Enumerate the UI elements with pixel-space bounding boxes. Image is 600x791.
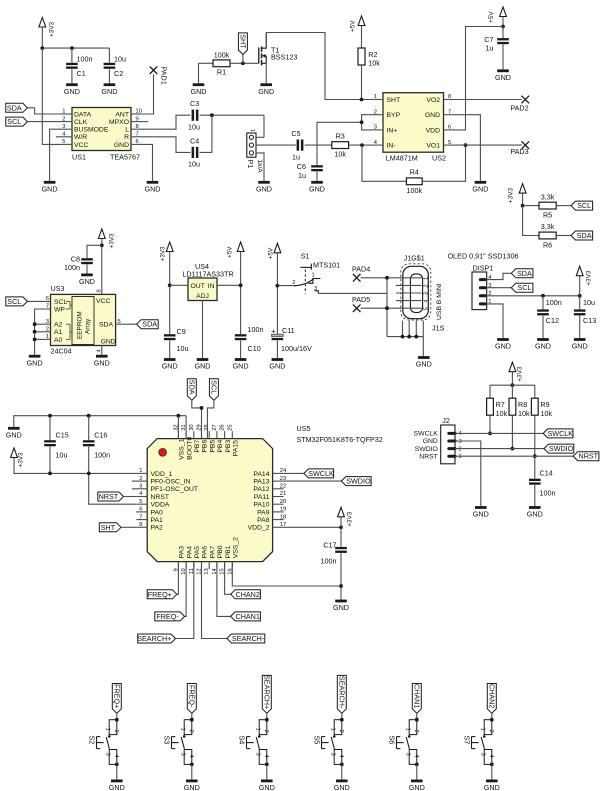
svg-text:PAD3: PAD3 (510, 147, 528, 156)
svg-text:PA0: PA0 (151, 509, 164, 516)
svg-text:3: 3 (62, 124, 65, 130)
svg-text:C4: C4 (190, 137, 199, 146)
svg-text:1: 1 (459, 454, 462, 460)
svg-text:CHAN1: CHAN1 (236, 612, 260, 621)
svg-text:5: 5 (62, 139, 65, 145)
svg-text:FREQ-: FREQ- (188, 685, 197, 708)
svg-text:100n: 100n (94, 450, 110, 459)
svg-text:J2: J2 (442, 416, 450, 425)
svg-text:IN-: IN- (387, 143, 396, 150)
svg-text:R: R (124, 134, 129, 141)
svg-text:GND: GND (473, 510, 489, 519)
svg-text:C13: C13 (583, 316, 596, 325)
svg-text:19: 19 (280, 507, 286, 513)
svg-text:FREQ+: FREQ+ (148, 590, 172, 599)
svg-text:2: 2 (113, 730, 119, 733)
svg-text:PA7: PA7 (209, 546, 216, 559)
svg-text:100n: 100n (248, 325, 264, 334)
svg-text:2: 2 (423, 284, 429, 287)
svg-text:GND: GND (416, 360, 432, 369)
svg-text:IN: IN (208, 283, 215, 290)
svg-text:10k: 10k (518, 409, 530, 418)
svg-text:A2: A2 (54, 322, 63, 329)
svg-text:+5V: +5V (488, 11, 495, 23)
svg-text:C3: C3 (190, 99, 199, 108)
svg-text:VO1: VO1 (426, 143, 440, 150)
svg-text:R5: R5 (543, 210, 552, 219)
svg-text:C12: C12 (546, 316, 559, 325)
svg-text:GND: GND (109, 783, 125, 791)
svg-text:10u: 10u (177, 344, 189, 353)
svg-text:SHT: SHT (387, 97, 401, 104)
svg-text:CHAN1: CHAN1 (413, 684, 422, 708)
svg-text:PB3: PB3 (225, 440, 232, 453)
svg-text:TEA5767: TEA5767 (110, 153, 140, 162)
svg-text:10k: 10k (496, 409, 508, 418)
svg-text:GND: GND (309, 185, 325, 194)
svg-text:PA5: PA5 (194, 546, 201, 559)
svg-text:R9: R9 (540, 400, 549, 409)
svg-text:L: L (125, 127, 129, 134)
svg-text:PF1-OSC_OUT: PF1-OSC_OUT (151, 486, 199, 493)
svg-text:BOOT0: BOOT0 (186, 437, 193, 460)
svg-text:10k: 10k (334, 150, 346, 159)
svg-text:PAD2: PAD2 (510, 103, 528, 112)
svg-text:+5V: +5V (267, 247, 274, 259)
svg-text:GND: GND (425, 112, 440, 119)
svg-text:18: 18 (280, 514, 286, 520)
svg-text:PA3: PA3 (179, 546, 186, 559)
svg-text:26: 26 (220, 424, 226, 430)
svg-text:2: 2 (188, 730, 194, 733)
svg-text:S5: S5 (312, 736, 321, 745)
svg-text:ANT: ANT (115, 111, 129, 118)
svg-text:3: 3 (479, 753, 485, 756)
svg-text:+3V3: +3V3 (347, 511, 354, 527)
svg-text:SDA: SDA (577, 231, 592, 240)
svg-text:100k: 100k (407, 186, 423, 195)
svg-text:7: 7 (448, 109, 451, 115)
svg-text:VSS_1: VSS_1 (179, 438, 186, 459)
svg-text:6: 6 (139, 507, 142, 513)
svg-text:GND: GND (256, 185, 272, 194)
svg-text:PF0-OSC_IN: PF0-OSC_IN (151, 479, 191, 486)
svg-text:DATA: DATA (74, 111, 92, 118)
svg-text:GND: GND (79, 277, 95, 286)
svg-text:3: 3 (423, 292, 429, 295)
svg-text:3: 3 (329, 753, 335, 756)
svg-text:3,3k: 3,3k (541, 192, 555, 201)
svg-text:GND: GND (535, 342, 551, 351)
svg-text:SHT: SHT (239, 34, 248, 49)
svg-text:100n: 100n (546, 298, 562, 307)
svg-text:1: 1 (249, 129, 255, 132)
svg-text:100u/16V: 100u/16V (281, 344, 312, 353)
svg-text:GND: GND (572, 342, 588, 351)
svg-text:1k/A: 1k/A (256, 160, 263, 174)
svg-text:US3: US3 (51, 284, 65, 293)
svg-text:SDA: SDA (142, 320, 157, 329)
svg-text:100n: 100n (77, 54, 93, 63)
svg-text:USB B MINI: USB B MINI (436, 283, 443, 320)
svg-text:GND: GND (472, 185, 488, 194)
svg-text:LM4871M: LM4871M (386, 154, 418, 163)
svg-text:3: 3 (459, 439, 462, 445)
svg-text:8: 8 (448, 94, 451, 100)
svg-text:PB6: PB6 (202, 440, 209, 453)
svg-text:SEARCH-: SEARCH- (232, 634, 265, 643)
svg-text:SCL: SCL (7, 117, 21, 126)
svg-text:1u: 1u (298, 171, 306, 180)
svg-text:2: 2 (488, 730, 494, 733)
svg-text:GND: GND (94, 358, 110, 367)
svg-text:SWCLK: SWCLK (308, 469, 334, 478)
svg-text:VDD_1: VDD_1 (151, 471, 173, 478)
svg-text:S1: S1 (301, 252, 310, 261)
svg-text:PA12: PA12 (253, 486, 269, 493)
svg-text:MTS101: MTS101 (313, 260, 340, 269)
svg-text:1: 1 (329, 728, 335, 731)
svg-text:SCL: SCL (7, 297, 21, 306)
svg-text:1u: 1u (292, 153, 300, 162)
svg-text:R3: R3 (336, 131, 345, 140)
svg-text:5: 5 (448, 140, 451, 146)
svg-text:6: 6 (448, 125, 451, 131)
svg-text:PA15: PA15 (233, 440, 240, 456)
svg-text:C2: C2 (114, 69, 123, 78)
svg-text:NRST: NRST (99, 492, 119, 501)
svg-text:10u: 10u (188, 160, 200, 169)
svg-text:GND: GND (233, 362, 249, 371)
svg-text:+: + (271, 327, 276, 336)
svg-text:2: 2 (139, 476, 142, 482)
svg-text:SDA: SDA (188, 380, 197, 395)
svg-text:7: 7 (136, 132, 139, 138)
svg-text:3: 3 (104, 753, 110, 756)
svg-text:5: 5 (423, 307, 429, 310)
svg-text:1u: 1u (486, 44, 494, 53)
svg-text:US5: US5 (297, 424, 311, 433)
svg-text:1: 1 (104, 728, 110, 731)
svg-text:VSS_2: VSS_2 (233, 537, 240, 558)
svg-text:ADJ: ADJ (196, 293, 209, 300)
svg-text:FREQ-: FREQ- (156, 612, 179, 621)
svg-text:BYP: BYP (387, 112, 401, 119)
svg-text:SHT: SHT (101, 523, 116, 532)
svg-text:OUT: OUT (191, 283, 205, 290)
svg-text:20: 20 (280, 499, 286, 505)
svg-text:VDD: VDD (426, 127, 440, 134)
svg-text:MPXO: MPXO (109, 119, 129, 126)
svg-text:+3V3: +3V3 (586, 270, 593, 286)
svg-text:GND: GND (258, 87, 274, 96)
svg-text:PA14: PA14 (253, 471, 269, 478)
svg-text:J1S: J1S (432, 323, 445, 332)
svg-text:VDD_2: VDD_2 (248, 525, 270, 532)
svg-text:GND: GND (495, 73, 511, 82)
svg-text:PB1: PB1 (225, 545, 232, 558)
svg-text:5: 5 (139, 499, 142, 505)
svg-text:S3: S3 (162, 736, 171, 745)
svg-text:SWDIO: SWDIO (415, 446, 438, 453)
svg-text:WP: WP (54, 306, 65, 313)
svg-text:S6: S6 (387, 736, 396, 745)
svg-text:PA8: PA8 (257, 517, 270, 524)
svg-text:C14: C14 (540, 468, 553, 477)
svg-text:SDA: SDA (517, 269, 532, 278)
svg-text:SWCLK: SWCLK (414, 431, 439, 438)
svg-text:1: 1 (312, 272, 315, 278)
svg-text:NRST: NRST (419, 453, 438, 460)
svg-text:22: 22 (280, 484, 286, 490)
svg-text:A1: A1 (54, 329, 63, 336)
svg-text:SWDIO: SWDIO (549, 444, 574, 453)
svg-text:GND: GND (334, 783, 350, 791)
svg-text:+3V3: +3V3 (516, 366, 523, 382)
svg-text:GND: GND (259, 783, 275, 791)
svg-text:CHAN2: CHAN2 (236, 590, 260, 599)
svg-text:SCL: SCL (54, 299, 67, 306)
svg-text:VO2: VO2 (426, 97, 440, 104)
svg-text:+3V3: +3V3 (160, 246, 167, 262)
svg-text:S7: S7 (462, 736, 471, 745)
svg-text:30: 30 (189, 424, 195, 430)
svg-text:R1: R1 (217, 68, 226, 77)
svg-text:NRST: NRST (579, 452, 599, 461)
svg-text:PA11: PA11 (254, 494, 270, 501)
svg-text:C15: C15 (56, 431, 69, 440)
svg-text:1: 1 (254, 728, 260, 731)
svg-text:CLK: CLK (74, 119, 88, 126)
svg-text:J1G$1: J1G$1 (404, 253, 425, 262)
svg-text:+3V3: +3V3 (48, 21, 55, 37)
svg-text:GND: GND (269, 362, 285, 371)
svg-text:GND: GND (42, 185, 58, 194)
svg-text:A0: A0 (54, 337, 63, 344)
svg-text:PA4: PA4 (186, 546, 193, 559)
svg-text:SWDIO: SWDIO (346, 477, 371, 486)
svg-text:10: 10 (136, 109, 142, 115)
svg-text:P1: P1 (246, 160, 255, 169)
svg-text:R7: R7 (496, 400, 505, 409)
svg-text:PA6: PA6 (202, 546, 209, 559)
svg-text:BSS123: BSS123 (271, 52, 297, 61)
svg-text:GND: GND (184, 783, 200, 791)
svg-text:GND: GND (527, 510, 543, 519)
svg-text:SEARCH+: SEARCH+ (263, 675, 272, 709)
svg-text:LD1117AS33TR: LD1117AS33TR (182, 269, 233, 278)
svg-text:PB0: PB0 (217, 545, 224, 558)
svg-text:10u: 10u (56, 450, 68, 459)
svg-text:GND: GND (6, 431, 22, 440)
svg-text:1: 1 (139, 468, 142, 474)
svg-text:10k: 10k (540, 409, 552, 418)
svg-text:NRST: NRST (151, 494, 170, 501)
svg-text:SEARCH-: SEARCH- (338, 676, 347, 709)
svg-text:9: 9 (136, 116, 139, 122)
svg-text:PAD5: PAD5 (352, 295, 370, 304)
svg-text:Array: Array (85, 318, 92, 334)
svg-text:24C04: 24C04 (51, 346, 72, 355)
svg-text:GND: GND (114, 142, 129, 149)
svg-text:SDA: SDA (99, 322, 113, 329)
svg-text:3: 3 (374, 125, 377, 131)
svg-text:PB5: PB5 (209, 440, 216, 453)
svg-text:CHAN2: CHAN2 (488, 684, 497, 708)
svg-text:C16: C16 (94, 431, 107, 440)
svg-text:EEPROM: EEPROM (77, 311, 84, 339)
svg-text:2: 2 (263, 730, 269, 733)
svg-text:S4: S4 (237, 736, 246, 745)
svg-text:8: 8 (96, 289, 102, 292)
svg-text:3: 3 (179, 753, 185, 756)
svg-text:3,3k: 3,3k (541, 222, 555, 231)
svg-text:VDDA: VDDA (151, 502, 170, 509)
svg-text:GND: GND (191, 87, 207, 96)
svg-text:C17: C17 (323, 540, 336, 549)
svg-text:GND: GND (162, 362, 178, 371)
svg-text:PA9: PA9 (257, 509, 270, 516)
svg-text:6: 6 (136, 139, 139, 145)
svg-text:W/R: W/R (74, 134, 87, 141)
svg-text:100n: 100n (64, 263, 80, 272)
svg-text:2: 2 (459, 446, 462, 452)
svg-text:2: 2 (62, 116, 65, 122)
svg-text:R6: R6 (543, 240, 552, 249)
svg-text:3: 3 (404, 753, 410, 756)
svg-text:2: 2 (374, 109, 377, 115)
svg-text:PA1: PA1 (151, 517, 164, 524)
svg-text:+3V3: +3V3 (507, 188, 514, 204)
svg-text:21: 21 (280, 491, 286, 497)
svg-text:GND: GND (333, 603, 349, 612)
svg-text:SDA: SDA (7, 103, 22, 112)
svg-text:C6: C6 (297, 162, 306, 171)
svg-text:1: 1 (404, 728, 410, 731)
svg-text:SCL: SCL (210, 380, 219, 394)
svg-text:C1: C1 (77, 69, 86, 78)
svg-text:2: 2 (413, 730, 419, 733)
svg-text:2: 2 (338, 730, 344, 733)
svg-text:GND: GND (409, 783, 425, 791)
svg-text:1: 1 (374, 94, 377, 100)
svg-text:PAD4: PAD4 (352, 265, 370, 274)
svg-text:FREQ+: FREQ+ (113, 684, 122, 708)
svg-text:10u: 10u (188, 122, 200, 131)
svg-text:10u: 10u (114, 54, 126, 63)
svg-text:S2: S2 (87, 736, 96, 745)
svg-text:PA10: PA10 (253, 502, 269, 509)
svg-text:100k: 100k (214, 50, 230, 59)
svg-text:+5V: +5V (227, 246, 234, 258)
svg-text:100n: 100n (321, 556, 337, 565)
svg-text:PA2: PA2 (151, 525, 164, 532)
svg-text:R4: R4 (410, 168, 419, 177)
svg-text:VCC: VCC (96, 298, 110, 305)
svg-text:3: 3 (139, 484, 142, 490)
svg-text:SWCLK: SWCLK (548, 429, 574, 438)
svg-text:US2: US2 (432, 154, 446, 163)
svg-text:25: 25 (227, 424, 233, 430)
svg-text:PB7: PB7 (194, 440, 201, 453)
svg-text:C9: C9 (177, 327, 186, 336)
svg-text:8: 8 (139, 522, 142, 528)
svg-text:1: 1 (62, 109, 65, 115)
svg-text:PA13: PA13 (253, 479, 269, 486)
svg-text:GND: GND (27, 358, 43, 367)
svg-text:3: 3 (254, 753, 260, 756)
svg-text:PB4: PB4 (217, 440, 224, 453)
svg-text:SCL: SCL (577, 201, 591, 210)
svg-text:+5V: +5V (350, 20, 357, 32)
svg-text:SCL: SCL (517, 283, 531, 292)
svg-text:OLED 0,91" SSD1306: OLED 0,91" SSD1306 (448, 251, 519, 260)
svg-text:BUSMODE: BUSMODE (74, 127, 109, 134)
svg-text:1: 1 (423, 277, 429, 280)
svg-text:GND: GND (145, 185, 161, 194)
svg-text:10k: 10k (368, 58, 380, 67)
svg-text:C10: C10 (248, 344, 261, 353)
svg-text:10u: 10u (583, 298, 595, 307)
svg-text:GND: GND (101, 87, 117, 96)
svg-text:GND: GND (484, 783, 500, 791)
svg-text:+3V3: +3V3 (108, 233, 115, 249)
svg-text:GND: GND (495, 342, 511, 351)
svg-text:GND: GND (195, 362, 211, 371)
svg-text:STM32F051K8T6-TQFP32: STM32F051K8T6-TQFP32 (297, 435, 383, 444)
svg-text:VCC: VCC (74, 142, 88, 149)
svg-text:1: 1 (479, 728, 485, 731)
svg-text:1: 1 (179, 728, 185, 731)
svg-text:+3V3: +3V3 (18, 452, 25, 468)
svg-text:PAD1: PAD1 (159, 67, 168, 85)
svg-text:GND: GND (101, 339, 116, 346)
svg-text:100n: 100n (540, 488, 556, 497)
svg-text:C5: C5 (291, 129, 300, 138)
svg-text:R8: R8 (518, 400, 527, 409)
svg-text:8: 8 (136, 124, 139, 130)
svg-text:7: 7 (139, 514, 142, 520)
svg-text:13: 13 (204, 568, 210, 574)
svg-text:DISP1: DISP1 (473, 263, 494, 272)
svg-text:27: 27 (212, 424, 218, 430)
svg-text:3: 3 (314, 286, 317, 292)
svg-text:GND: GND (423, 438, 438, 445)
svg-text:C11: C11 (282, 326, 295, 335)
svg-text:US1: US1 (72, 153, 86, 162)
svg-text:SEARCH+: SEARCH+ (137, 634, 171, 643)
svg-text:IN+: IN+ (387, 127, 398, 134)
svg-text:GND: GND (64, 87, 80, 96)
